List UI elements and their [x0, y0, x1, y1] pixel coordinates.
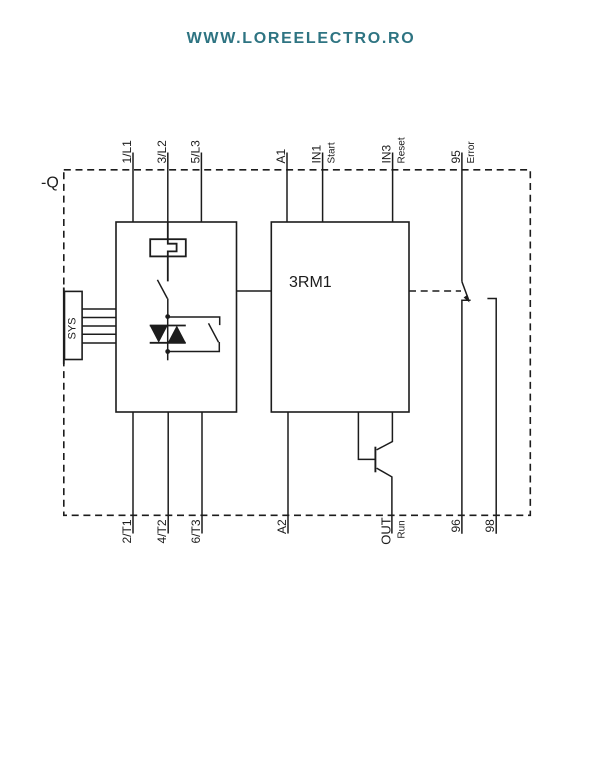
node top of triac	[165, 314, 170, 319]
svg-text:-Q: -Q	[41, 175, 59, 192]
SYS connector	[64, 288, 82, 365]
wire SYS 1	[82, 308, 116, 310]
dashed enclosure -Q	[64, 170, 531, 516]
wire A1	[286, 153, 288, 223]
wire SYS 2	[82, 317, 116, 319]
svg-text:1/L1: 1/L1	[120, 140, 134, 164]
svg-text:98: 98	[483, 519, 497, 533]
svg-text:95: 95	[449, 150, 463, 164]
svg-text:SYS: SYS	[67, 317, 79, 339]
wire below switch	[167, 299, 169, 317]
stub wire below node	[167, 352, 169, 361]
relay contact blade (95 common)	[462, 282, 469, 300]
svg-text:A1: A1	[274, 148, 288, 163]
svg-text:IN1: IN1	[310, 145, 324, 164]
svg-text:A2: A2	[275, 519, 289, 534]
power module box (left)	[116, 222, 237, 412]
contact (NO switch) in power module	[157, 280, 167, 299]
wire IN1	[322, 153, 324, 223]
svg-text:WWW.LOREELECTRO.RO: WWW.LOREELECTRO.RO	[187, 30, 416, 47]
wire power module to 3RM1	[237, 290, 272, 292]
wire 95	[461, 153, 463, 282]
svg-text:96: 96	[449, 519, 463, 533]
svg-text:Reset: Reset	[397, 137, 408, 163]
svg-text:IN3: IN3	[380, 145, 394, 164]
wire A2	[287, 412, 289, 534]
node bottom of triac	[165, 349, 170, 354]
wire 6/T3	[201, 412, 203, 534]
svg-text:Run: Run	[397, 520, 408, 538]
svg-text:Start: Start	[327, 142, 338, 163]
overload release symbol	[150, 222, 186, 281]
wire 96	[462, 300, 471, 534]
wire 98	[487, 299, 496, 534]
svg-text:3/L2: 3/L2	[155, 140, 169, 164]
wire 1/L1	[132, 153, 134, 223]
svg-text:5/L3: 5/L3	[188, 140, 202, 164]
wire SYS 4	[82, 333, 116, 335]
relay contact arrow	[464, 295, 470, 303]
dashed control link 3RM1 to relay contact	[409, 290, 461, 292]
bypass contact around triac	[168, 317, 220, 352]
wire 3/L2	[167, 153, 169, 223]
svg-text:3RM1: 3RM1	[289, 274, 332, 291]
svg-text:OUT: OUT	[378, 517, 393, 545]
triac symbol	[150, 317, 186, 352]
transistor (solid state output)	[358, 412, 392, 534]
control module box 3RM1	[271, 222, 409, 412]
wire 4/T2	[167, 412, 169, 534]
wire SYS 3	[82, 325, 116, 327]
wire IN3	[392, 153, 394, 223]
wire 2/T1	[132, 412, 134, 534]
svg-text:6/T3: 6/T3	[189, 519, 203, 543]
wire SYS 5	[82, 342, 116, 344]
svg-text:2/T1: 2/T1	[120, 519, 134, 543]
wire 5/L3	[200, 153, 202, 223]
svg-text:Error: Error	[466, 141, 477, 164]
svg-text:4/T2: 4/T2	[155, 519, 169, 543]
